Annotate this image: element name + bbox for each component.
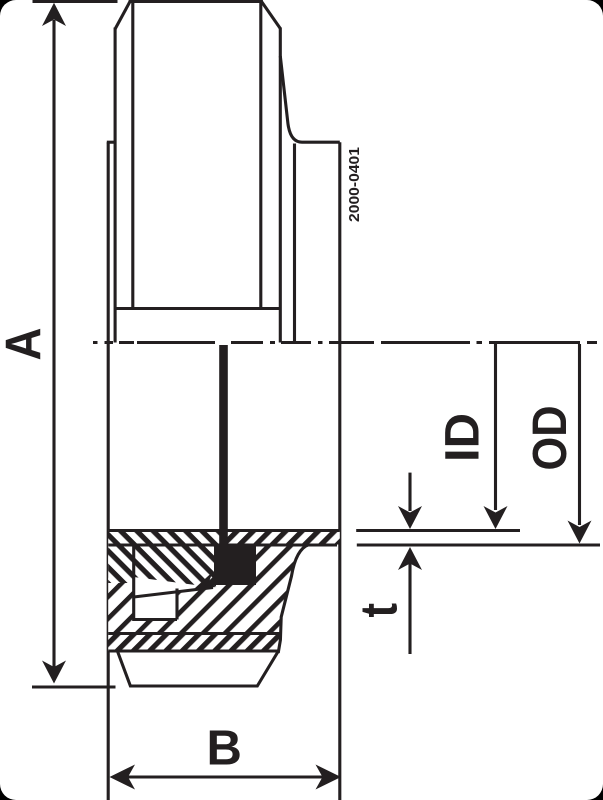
svg-text:B: B: [207, 722, 242, 776]
svg-text:OD: OD: [524, 406, 577, 471]
svg-text:2000-0401: 2000-0401: [346, 147, 363, 222]
svg-text:t: t: [351, 603, 409, 618]
svg-text:A: A: [0, 328, 52, 361]
svg-text:ID: ID: [437, 413, 490, 462]
